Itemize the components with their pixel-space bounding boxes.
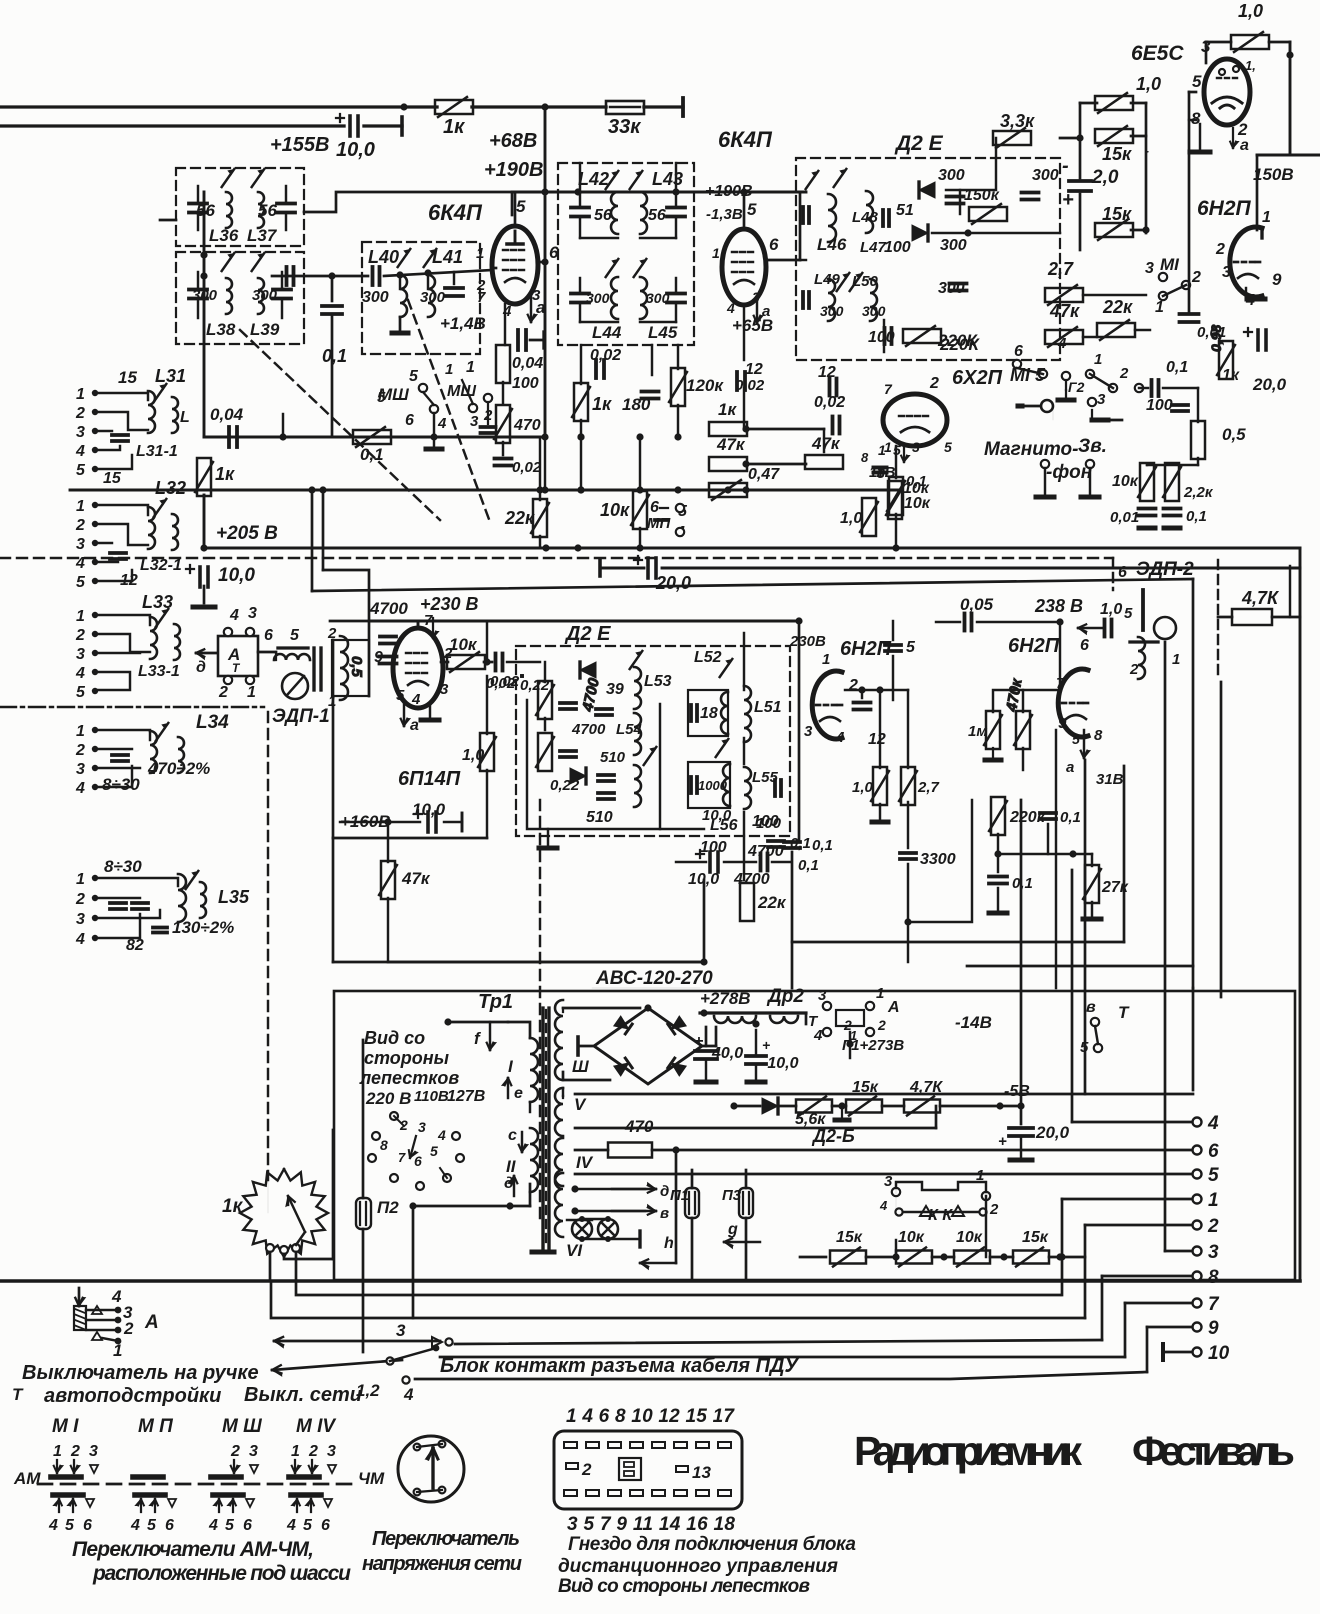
svg-text:1: 1 bbox=[1155, 299, 1164, 316]
svg-text:а: а bbox=[1066, 759, 1074, 776]
svg-text:56: 56 bbox=[594, 207, 612, 224]
svg-text:в: в bbox=[660, 1205, 669, 1222]
svg-text:3 5 7 9 11 14 16 18: 3 5 7 9 11 14 16 18 bbox=[567, 1514, 735, 1535]
svg-text:-1,3В: -1,3В bbox=[706, 206, 743, 223]
svg-text:4: 4 bbox=[130, 1517, 140, 1534]
svg-text:1,: 1, bbox=[1245, 58, 1256, 73]
svg-text:L44: L44 bbox=[592, 323, 622, 342]
svg-text:3: 3 bbox=[248, 605, 257, 622]
svg-text:1: 1 bbox=[291, 1443, 300, 1460]
svg-text:3: 3 bbox=[76, 761, 85, 778]
svg-text:+: + bbox=[694, 1033, 703, 1050]
svg-text:3: 3 bbox=[1097, 391, 1106, 408]
svg-text:А: А bbox=[144, 1312, 159, 1333]
svg-text:5: 5 bbox=[76, 462, 86, 479]
svg-text:8: 8 bbox=[1094, 727, 1103, 744]
svg-text:10,0: 10,0 bbox=[412, 800, 446, 819]
svg-text:1: 1 bbox=[445, 361, 453, 378]
svg-text:П1: П1 bbox=[670, 1187, 689, 1204]
svg-text:Блок контакт разъема кабеля ПД: Блок контакт разъема кабеля ПДУ bbox=[440, 1355, 799, 1377]
svg-text:2: 2 bbox=[1191, 269, 1201, 286]
svg-text:+278В: +278В bbox=[700, 989, 751, 1008]
svg-text:0,1: 0,1 bbox=[906, 473, 927, 490]
svg-text:2: 2 bbox=[75, 517, 85, 534]
svg-text:300: 300 bbox=[420, 289, 446, 306]
svg-text:0,04: 0,04 bbox=[210, 405, 244, 424]
svg-text:8÷30: 8÷30 bbox=[102, 775, 140, 794]
svg-text:1к: 1к bbox=[443, 116, 465, 138]
svg-text:L46: L46 bbox=[817, 235, 847, 254]
svg-text:Выкл. сети: Выкл. сети bbox=[244, 1384, 362, 1406]
svg-text:300: 300 bbox=[862, 303, 886, 319]
svg-text:4,7К: 4,7К bbox=[1241, 588, 1280, 608]
svg-text:82: 82 bbox=[126, 937, 144, 954]
svg-text:3: 3 bbox=[396, 1321, 406, 1340]
svg-text:g: g bbox=[727, 1221, 738, 1238]
svg-text:1,0: 1,0 bbox=[1100, 601, 1122, 618]
svg-text:300: 300 bbox=[940, 237, 967, 254]
svg-text:0,02: 0,02 bbox=[490, 673, 520, 690]
svg-text:3: 3 bbox=[1145, 260, 1154, 277]
svg-text:2: 2 bbox=[443, 645, 453, 662]
svg-text:4700: 4700 bbox=[733, 871, 770, 888]
svg-text:2: 2 bbox=[75, 627, 85, 644]
svg-text:8÷30: 8÷30 bbox=[104, 857, 142, 876]
svg-text:1: 1 bbox=[822, 651, 830, 668]
svg-text:4: 4 bbox=[1207, 1113, 1219, 1134]
svg-text:5: 5 bbox=[65, 1517, 75, 1534]
svg-text:L39: L39 bbox=[250, 320, 280, 339]
svg-text:Г2: Г2 bbox=[1068, 379, 1085, 395]
svg-text:238 В: 238 В bbox=[1034, 596, 1083, 616]
svg-text:АВС-120-270: АВС-120-270 bbox=[595, 968, 713, 989]
svg-text:110В: 110В bbox=[414, 1088, 449, 1105]
svg-text:2: 2 bbox=[70, 1443, 80, 1460]
svg-text:10,0: 10,0 bbox=[218, 565, 255, 586]
svg-text:Переключатели АМ-ЧМ,: Переключатели АМ-ЧМ, bbox=[72, 1538, 314, 1561]
svg-text:4: 4 bbox=[75, 665, 85, 682]
svg-text:0,1: 0,1 bbox=[1186, 508, 1207, 525]
svg-text:МШ: МШ bbox=[447, 383, 476, 400]
svg-text:Зв.: Зв. bbox=[1078, 436, 1107, 457]
svg-text:3: 3 bbox=[76, 536, 85, 553]
svg-text:1: 1 bbox=[1172, 651, 1180, 668]
svg-text:8: 8 bbox=[1208, 1267, 1219, 1288]
svg-text:2: 2 bbox=[929, 375, 939, 392]
svg-text:4: 4 bbox=[1057, 335, 1067, 352]
svg-text:4: 4 bbox=[835, 729, 845, 746]
svg-text:6: 6 bbox=[321, 1517, 330, 1534]
svg-text:5: 5 bbox=[76, 574, 86, 591]
svg-text:-10,0: -10,0 bbox=[762, 1055, 799, 1072]
svg-text:2: 2 bbox=[308, 1443, 318, 1460]
svg-text:33к: 33к bbox=[608, 116, 641, 138]
svg-text:Магнито-: Магнито- bbox=[984, 439, 1078, 460]
svg-text:300: 300 bbox=[1032, 167, 1059, 184]
svg-text:Д2 Е: Д2 Е bbox=[894, 132, 944, 155]
svg-text:Переключатель: Переключатель bbox=[372, 1528, 520, 1550]
svg-text:II: II bbox=[506, 1157, 517, 1176]
svg-text:20,0: 20,0 bbox=[1035, 1123, 1070, 1142]
svg-text:8: 8 bbox=[861, 450, 869, 465]
svg-text:1: 1 bbox=[76, 498, 85, 515]
svg-text:3300: 3300 bbox=[920, 851, 956, 868]
svg-text:300: 300 bbox=[820, 303, 844, 319]
svg-text:10к: 10к bbox=[600, 500, 630, 520]
svg-text:2: 2 bbox=[75, 405, 85, 422]
svg-text:5: 5 bbox=[944, 439, 952, 455]
svg-text:0,05: 0,05 bbox=[960, 595, 994, 614]
svg-text:22к: 22к bbox=[757, 893, 787, 912]
svg-text:3: 3 bbox=[912, 439, 920, 455]
svg-text:6: 6 bbox=[243, 1517, 252, 1534]
svg-text:1к: 1к bbox=[592, 394, 612, 414]
svg-text:+: + bbox=[998, 1133, 1007, 1150]
svg-text:V: V bbox=[574, 1095, 587, 1114]
svg-text:40,0: 40,0 bbox=[711, 1045, 743, 1062]
svg-text:0,1: 0,1 bbox=[360, 445, 384, 464]
svg-text:56: 56 bbox=[648, 207, 666, 224]
svg-text:1: 1 bbox=[76, 386, 85, 403]
svg-text:ЭДП-2: ЭДП-2 bbox=[1136, 559, 1194, 580]
svg-text:4: 4 bbox=[411, 691, 421, 708]
svg-text:5: 5 bbox=[225, 1517, 235, 1534]
svg-text:М Ш: М Ш bbox=[222, 1416, 262, 1437]
svg-text:510: 510 bbox=[586, 809, 613, 826]
svg-text:4: 4 bbox=[879, 1198, 888, 1213]
svg-text:3: 3 bbox=[1208, 1242, 1219, 1263]
svg-text:470÷2%: 470÷2% bbox=[147, 759, 210, 778]
svg-text:1,0: 1,0 bbox=[462, 747, 484, 764]
svg-text:3: 3 bbox=[76, 646, 85, 663]
svg-text:5: 5 bbox=[516, 197, 526, 216]
svg-text:0,02: 0,02 bbox=[814, 394, 845, 411]
svg-text:10к: 10к bbox=[898, 1229, 925, 1246]
svg-text:22к: 22к bbox=[1102, 297, 1133, 317]
svg-text:Радиоприемник: Радиоприемник bbox=[854, 1428, 1082, 1474]
svg-text:8: 8 bbox=[380, 1137, 388, 1153]
svg-text:+: + bbox=[762, 1037, 770, 1053]
svg-text:300: 300 bbox=[938, 280, 965, 297]
svg-text:15: 15 bbox=[118, 368, 137, 387]
svg-text:100: 100 bbox=[512, 375, 539, 392]
svg-text:Вид со стороны лепестков: Вид со стороны лепестков bbox=[558, 1576, 810, 1597]
svg-text:15к: 15к bbox=[1022, 1229, 1049, 1246]
svg-text:0,1: 0,1 bbox=[322, 346, 347, 366]
svg-text:15: 15 bbox=[103, 470, 122, 487]
svg-text:9: 9 bbox=[1272, 270, 1282, 289]
svg-text:автоподстройки: автоподстройки bbox=[44, 1385, 221, 1407]
svg-text:L47: L47 bbox=[860, 239, 887, 256]
svg-text:-5В: -5В bbox=[1004, 1083, 1030, 1100]
svg-text:L: L bbox=[180, 409, 190, 426]
svg-text:1к: 1к bbox=[718, 400, 737, 419]
svg-text:д: д bbox=[196, 659, 206, 676]
svg-text:20,0: 20,0 bbox=[1252, 375, 1287, 394]
svg-text:L38: L38 bbox=[206, 320, 236, 339]
svg-text:1: 1 bbox=[113, 1341, 122, 1360]
svg-text:2: 2 bbox=[75, 891, 85, 908]
svg-text:130÷2%: 130÷2% bbox=[172, 918, 234, 937]
svg-text:31В: 31В bbox=[1096, 771, 1124, 788]
svg-text:L32: L32 bbox=[155, 478, 186, 498]
svg-text:1: 1 bbox=[476, 245, 484, 262]
svg-text:МІ: МІ bbox=[1160, 255, 1180, 274]
svg-text:230В: 230В bbox=[789, 633, 826, 650]
svg-text:6: 6 bbox=[1080, 637, 1089, 654]
svg-text:1: 1 bbox=[76, 871, 85, 888]
svg-text:6: 6 bbox=[1208, 1141, 1219, 1162]
svg-text:150В: 150В bbox=[1253, 165, 1294, 184]
svg-text:4: 4 bbox=[111, 1287, 122, 1306]
svg-text:Др2: Др2 bbox=[766, 986, 804, 1007]
svg-text:1,2: 1,2 bbox=[356, 1381, 380, 1400]
svg-text:120к: 120к bbox=[686, 376, 724, 395]
svg-text:0,02: 0,02 bbox=[590, 347, 621, 364]
svg-text:Т: Т bbox=[1118, 1003, 1130, 1022]
svg-text:6: 6 bbox=[650, 499, 659, 516]
svg-text:L42: L42 bbox=[578, 169, 609, 189]
svg-text:5: 5 bbox=[290, 627, 300, 644]
svg-text:5: 5 bbox=[1080, 1039, 1089, 1056]
svg-text:лепестков: лепестков bbox=[359, 1068, 459, 1088]
svg-text:1,0: 1,0 bbox=[840, 510, 862, 527]
svg-text:4: 4 bbox=[48, 1517, 58, 1534]
svg-text:0,47: 0,47 bbox=[748, 466, 780, 483]
svg-text:39: 39 bbox=[606, 681, 624, 698]
svg-text:12: 12 bbox=[818, 364, 836, 381]
svg-text:+68В: +68В bbox=[489, 130, 537, 152]
svg-text:2: 2 bbox=[1119, 365, 1129, 382]
svg-text:L48: L48 bbox=[852, 209, 879, 226]
svg-text:51: 51 bbox=[896, 202, 914, 219]
svg-text:2: 2 bbox=[877, 1017, 886, 1033]
svg-text:0,01: 0,01 bbox=[1110, 509, 1139, 526]
svg-text:1: 1 bbox=[466, 359, 475, 376]
svg-text:Гнездо для подключения блока: Гнездо для подключения блока bbox=[568, 1534, 856, 1555]
svg-text:47к: 47к bbox=[401, 869, 431, 888]
svg-text:4: 4 bbox=[437, 1127, 446, 1143]
svg-text:300: 300 bbox=[586, 290, 610, 306]
svg-text:МП: МП bbox=[647, 515, 671, 532]
svg-text:в: в bbox=[1086, 999, 1096, 1016]
svg-text:5: 5 bbox=[747, 200, 757, 219]
svg-text:6Н2П: 6Н2П bbox=[840, 638, 892, 660]
svg-text:·: · bbox=[1146, 147, 1149, 158]
svg-text:L53: L53 bbox=[644, 673, 672, 690]
svg-text:L31-1: L31-1 bbox=[136, 443, 178, 460]
svg-text:2: 2 bbox=[989, 1201, 999, 1218]
svg-text:7: 7 bbox=[477, 289, 486, 306]
svg-text:5: 5 bbox=[1208, 1165, 1219, 1186]
svg-text:L40: L40 bbox=[368, 247, 399, 267]
svg-text:а: а bbox=[1240, 137, 1249, 154]
svg-text:220К: 220К bbox=[939, 335, 980, 354]
svg-text:10: 10 bbox=[1208, 1343, 1230, 1364]
svg-text:47к: 47к bbox=[811, 434, 841, 453]
svg-text:5: 5 bbox=[409, 368, 419, 385]
svg-text:+230 В: +230 В bbox=[420, 594, 479, 614]
svg-text:L32-1: L32-1 bbox=[140, 557, 182, 574]
svg-text:1: 1 bbox=[53, 1443, 62, 1460]
svg-text:5: 5 bbox=[1072, 731, 1080, 747]
svg-text:L51: L51 bbox=[754, 699, 782, 716]
svg-text:Т: Т bbox=[12, 1385, 24, 1404]
svg-text:6Н2П: 6Н2П bbox=[1008, 635, 1060, 657]
svg-text:е: е bbox=[514, 1085, 523, 1102]
svg-text:4: 4 bbox=[75, 780, 85, 797]
svg-text:1: 1 bbox=[884, 439, 892, 455]
svg-text:9: 9 bbox=[1058, 715, 1067, 732]
svg-text:6Х2П: 6Х2П bbox=[952, 367, 1003, 389]
svg-text:47к: 47к bbox=[1049, 301, 1080, 321]
svg-text:10,0: 10,0 bbox=[336, 139, 375, 161]
svg-text:7: 7 bbox=[884, 381, 893, 397]
svg-text:4: 4 bbox=[229, 607, 239, 624]
svg-text:5: 5 bbox=[1192, 72, 1202, 91]
svg-text:10к: 10к bbox=[904, 495, 931, 512]
svg-text:6: 6 bbox=[405, 412, 414, 429]
svg-text:3: 3 bbox=[804, 723, 813, 740]
svg-text:2,0: 2,0 bbox=[1091, 167, 1119, 188]
svg-text:1к: 1к bbox=[215, 464, 235, 484]
svg-text:15к: 15к bbox=[1102, 204, 1132, 224]
svg-text:2: 2 bbox=[848, 677, 858, 694]
svg-text:1: 1 bbox=[247, 684, 256, 701]
svg-text:1: 1 bbox=[1094, 351, 1102, 368]
svg-text:3: 3 bbox=[440, 681, 449, 698]
svg-text:300: 300 bbox=[938, 167, 965, 184]
svg-text:2: 2 bbox=[581, 1460, 592, 1479]
svg-text:стороны: стороны bbox=[364, 1048, 450, 1068]
svg-text:2: 2 bbox=[1207, 1216, 1219, 1237]
svg-text:с: с bbox=[508, 1127, 517, 1144]
svg-text:3,3к: 3,3к bbox=[1000, 111, 1035, 131]
svg-text:+205 В: +205 В bbox=[216, 523, 278, 544]
svg-text:М П: М П bbox=[138, 1416, 173, 1437]
svg-text:22к: 22к bbox=[504, 508, 535, 528]
svg-text:h: h bbox=[664, 1235, 674, 1252]
svg-text:L49: L49 bbox=[814, 271, 841, 288]
svg-text:6П14П: 6П14П bbox=[398, 768, 461, 790]
svg-text:56: 56 bbox=[258, 201, 277, 220]
svg-text:L36: L36 bbox=[209, 226, 239, 245]
svg-text:0,1: 0,1 bbox=[790, 835, 811, 852]
svg-text:6: 6 bbox=[83, 1517, 92, 1534]
svg-text:4700: 4700 bbox=[369, 599, 408, 618]
svg-text:L43: L43 bbox=[652, 169, 683, 189]
svg-text:12: 12 bbox=[868, 731, 886, 748]
svg-text:0,1: 0,1 bbox=[812, 837, 833, 854]
svg-text:10,0: 10,0 bbox=[702, 807, 732, 824]
svg-text:2,2к: 2,2к bbox=[1183, 484, 1214, 501]
svg-text:5: 5 bbox=[76, 684, 86, 701]
svg-text:4: 4 bbox=[437, 415, 447, 432]
svg-text:ЧМ: ЧМ bbox=[358, 1469, 385, 1488]
svg-text:0,02: 0,02 bbox=[735, 377, 765, 394]
svg-text:3: 3 bbox=[418, 1119, 426, 1135]
svg-text:6К4П: 6К4П bbox=[428, 200, 483, 225]
svg-text:+: + bbox=[1062, 189, 1074, 211]
svg-text:15к: 15к bbox=[1102, 144, 1132, 164]
svg-text:+155В: +155В bbox=[270, 134, 330, 156]
svg-text:6К4П: 6К4П bbox=[718, 127, 773, 152]
svg-text:4: 4 bbox=[75, 931, 85, 948]
svg-text:6: 6 bbox=[165, 1517, 174, 1534]
svg-text:3: 3 bbox=[1222, 264, 1231, 281]
svg-text:4700: 4700 bbox=[571, 721, 606, 738]
svg-text:1: 1 bbox=[876, 985, 884, 1002]
svg-text:2,7: 2,7 bbox=[1047, 259, 1074, 279]
svg-text:А: А bbox=[887, 999, 900, 1016]
svg-text:1,0: 1,0 bbox=[1136, 74, 1161, 94]
svg-text:К К: К К bbox=[928, 1207, 953, 1224]
svg-text:2: 2 bbox=[123, 1319, 134, 1338]
svg-text:7: 7 bbox=[398, 1150, 406, 1165]
svg-text:0,02: 0,02 bbox=[512, 459, 542, 476]
svg-text:100: 100 bbox=[756, 815, 782, 832]
svg-text:0,04: 0,04 bbox=[512, 355, 543, 372]
svg-text:6Н2П: 6Н2П bbox=[1197, 197, 1252, 220]
svg-text:56: 56 bbox=[196, 201, 215, 220]
svg-text:6Е5С: 6Е5С bbox=[1131, 42, 1184, 65]
svg-text:4: 4 bbox=[75, 555, 85, 572]
svg-text:100: 100 bbox=[884, 239, 911, 256]
svg-text:0,1: 0,1 bbox=[1060, 809, 1081, 826]
svg-text:9: 9 bbox=[374, 649, 383, 666]
svg-text:3: 3 bbox=[76, 424, 85, 441]
svg-text:5: 5 bbox=[377, 389, 386, 406]
svg-text:2: 2 bbox=[1215, 241, 1225, 258]
svg-text:L37: L37 bbox=[247, 226, 278, 245]
svg-text:L45: L45 bbox=[648, 323, 678, 342]
svg-text:2,7: 2,7 bbox=[917, 779, 940, 796]
svg-text:20,0: 20,0 bbox=[655, 573, 691, 593]
svg-text:2: 2 bbox=[1129, 661, 1139, 678]
svg-text:127В: 127В bbox=[447, 1088, 485, 1105]
svg-text:+1,4В: +1,4В bbox=[440, 314, 486, 333]
svg-text:VI: VI bbox=[566, 1241, 583, 1260]
svg-text:9: 9 bbox=[1208, 1318, 1219, 1339]
svg-text:6: 6 bbox=[264, 627, 273, 644]
svg-text:18: 18 bbox=[700, 705, 718, 722]
svg-text:Ш: Ш bbox=[572, 1057, 589, 1076]
svg-text:1к: 1к bbox=[222, 1196, 244, 1217]
svg-text:510: 510 bbox=[600, 749, 626, 766]
svg-text:-14В: -14В bbox=[955, 1013, 992, 1032]
svg-text:12: 12 bbox=[745, 361, 763, 378]
svg-text:2: 2 bbox=[218, 684, 228, 701]
svg-text:3: 3 bbox=[327, 1443, 336, 1460]
svg-text:4: 4 bbox=[75, 443, 85, 460]
svg-text:Вид со: Вид со bbox=[364, 1028, 425, 1048]
svg-text:3: 3 bbox=[884, 1173, 893, 1190]
svg-text:дистанционного управления: дистанционного управления bbox=[558, 1556, 838, 1577]
svg-text:4: 4 bbox=[502, 303, 512, 320]
svg-text:5: 5 bbox=[303, 1517, 313, 1534]
svg-text:0,5: 0,5 bbox=[1222, 425, 1246, 444]
svg-text:L31: L31 bbox=[155, 366, 186, 386]
svg-text:1к: 1к bbox=[1222, 367, 1240, 384]
svg-text:П3: П3 bbox=[722, 1187, 742, 1204]
svg-text:4: 4 bbox=[286, 1517, 296, 1534]
svg-text:Фестиваль: Фестиваль bbox=[1132, 1428, 1295, 1474]
svg-text:4: 4 bbox=[403, 1385, 414, 1404]
svg-text:7: 7 bbox=[1208, 1294, 1220, 1315]
svg-text:д: д bbox=[660, 1183, 669, 1200]
svg-text:IV: IV bbox=[576, 1153, 594, 1172]
svg-text:расположенные под шасси: расположенные под шасси bbox=[92, 1562, 351, 1585]
